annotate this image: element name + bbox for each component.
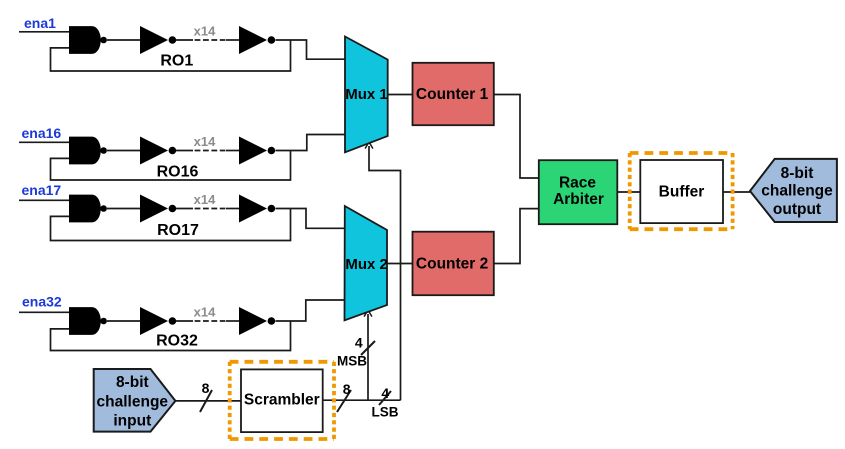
- svg-text:RO17: RO17: [157, 222, 199, 239]
- svg-text:Counter 2: Counter 2: [416, 256, 488, 273]
- svg-text:Arbiter: Arbiter: [553, 191, 604, 208]
- svg-text:input: input: [113, 412, 151, 429]
- svg-text:8: 8: [343, 381, 351, 397]
- svg-text:challenge: challenge: [97, 393, 169, 410]
- svg-text:4: 4: [355, 335, 363, 351]
- svg-text:RO32: RO32: [156, 333, 198, 350]
- svg-text:RO16: RO16: [157, 164, 199, 181]
- svg-text:Counter 1: Counter 1: [416, 86, 489, 103]
- svg-text:ena16: ena16: [22, 125, 62, 141]
- svg-text:Mux 2: Mux 2: [345, 256, 388, 273]
- svg-text:MSB: MSB: [337, 354, 367, 369]
- svg-text:Scrambler: Scrambler: [244, 392, 320, 409]
- svg-text:Race: Race: [559, 174, 596, 191]
- svg-text:ena32: ena32: [22, 294, 62, 310]
- svg-text:8: 8: [202, 380, 210, 396]
- svg-text:LSB: LSB: [372, 404, 399, 419]
- svg-text:x14: x14: [194, 23, 216, 38]
- svg-text:8-bit: 8-bit: [781, 165, 814, 182]
- svg-text:Mux 1: Mux 1: [345, 86, 388, 103]
- svg-text:x14: x14: [194, 192, 216, 207]
- svg-text:output: output: [773, 201, 821, 218]
- svg-text:4: 4: [381, 385, 389, 401]
- svg-text:ena1: ena1: [24, 15, 56, 31]
- svg-text:ena17: ena17: [22, 182, 62, 198]
- svg-text:8-bit: 8-bit: [116, 374, 149, 391]
- svg-text:x14: x14: [194, 134, 216, 149]
- svg-text:challenge: challenge: [761, 183, 833, 200]
- svg-text:x14: x14: [194, 304, 216, 319]
- svg-text:Buffer: Buffer: [659, 184, 705, 201]
- svg-text:RO1: RO1: [160, 52, 193, 69]
